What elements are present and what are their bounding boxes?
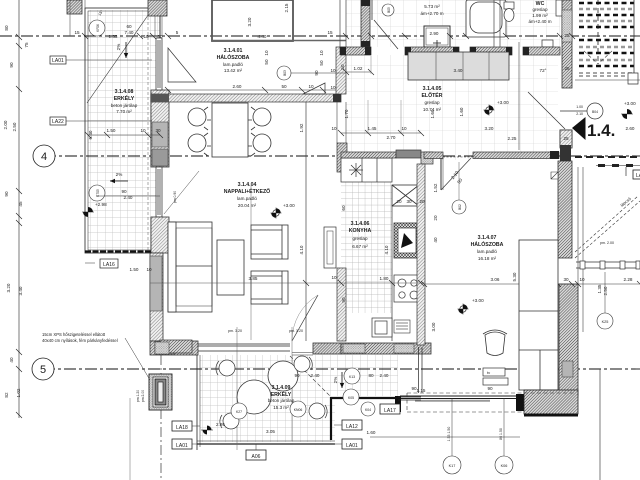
svg-text:1.60: 1.60 [459, 107, 464, 116]
svg-text:7.70 m²: 7.70 m² [116, 109, 132, 114]
fridge snowflake [349, 163, 363, 177]
svg-text:30: 30 [563, 277, 569, 282]
svg-text:B03: B03 [283, 70, 287, 76]
witness lines balcony2 [236, 327, 238, 450]
wall eloter/konyha y152 [341, 152, 396, 158]
marker circles bottom [443, 456, 461, 474]
left dimension chain line [16, 0, 22, 418]
svg-text:7.40: 7.40 [125, 30, 134, 35]
kitchen top cabinets [341, 158, 392, 182]
svg-text:1.70: 1.70 [344, 109, 349, 118]
svg-text:2.60: 2.60 [233, 84, 242, 89]
svg-text:50: 50 [264, 59, 269, 65]
svg-text:2%: 2% [116, 172, 123, 177]
bedroom2 south railing lines [400, 396, 516, 399]
boxed label LA01 bottom-mid [334, 439, 362, 449]
svg-text:40x40 cm nyílások, fém párkány: 40x40 cm nyílások, fém párkányfedéssel [42, 338, 118, 343]
south wall nappali [150, 341, 198, 355]
svg-text:15cm XPS hőszigeteléssel ellát: 15cm XPS hőszigeteléssel ellátott [42, 332, 106, 337]
svg-text:2.60: 2.60 [626, 126, 635, 131]
svg-text:lam.padló: lam.padló [223, 62, 243, 67]
svg-text:80 1.50: 80 1.50 [499, 428, 503, 440]
wall bedroom1 east / eloter [336, 47, 346, 94]
svg-text:lam.padló: lam.padló [477, 249, 497, 254]
balcony2 south window lines [398, 397, 421, 400]
svg-text:4.10: 4.10 [299, 245, 304, 254]
svg-text:60: 60 [126, 24, 132, 29]
room label NAPPALI 3.1.4.04 [224, 182, 270, 208]
svg-text:LA01: LA01 [346, 443, 358, 449]
window marker circle K lower [89, 185, 105, 201]
bath labels [420, 4, 443, 16]
svg-text:50: 50 [281, 84, 287, 89]
svg-text:10: 10 [146, 267, 152, 272]
svg-text:2.95: 2.95 [216, 422, 225, 427]
svg-text:10: 10 [319, 50, 324, 56]
svg-text:LA12: LA12 [346, 424, 358, 430]
pier column left [149, 374, 172, 410]
boxed label LA01 bottom-left [172, 439, 200, 449]
svg-text:1.4.: 1.4. [587, 121, 615, 140]
svg-text:B04: B04 [592, 110, 598, 114]
svg-text:LA17: LA17 [384, 408, 396, 414]
svg-text:1.53 1.50: 1.53 1.50 [447, 427, 451, 442]
west wall gray block lower [150, 256, 162, 311]
WC door leaf [556, 0, 563, 16]
svg-text:1.35: 1.35 [597, 284, 602, 293]
marker circles balcony2 [231, 403, 247, 419]
west wall below window2 [151, 217, 169, 253]
left dimension labels [3, 25, 29, 398]
svg-text:3.1.4.07: 3.1.4.07 [478, 235, 497, 241]
svg-text:3.20: 3.20 [485, 126, 494, 131]
svg-text:3.1.4.08: 3.1.4.08 [115, 89, 134, 95]
svg-text:ám+2.40 m: ám+2.40 m [528, 19, 551, 24]
svg-text:A06: A06 [252, 454, 261, 460]
outside corridor edge with blocks [596, 165, 640, 167]
top right ticks [343, 33, 575, 39]
kitchen counter east column [391, 206, 393, 341]
witness line left of pier [129, 398, 131, 480]
kitchen west opening jambs [337, 102, 346, 143]
bedroom2 tv table [483, 368, 505, 376]
eloter closet [408, 52, 509, 80]
svg-text:+3.00: +3.00 [624, 101, 636, 106]
floor tile grid ELOTER [346, 55, 558, 152]
svg-text:80: 80 [368, 373, 374, 378]
svg-text:10: 10 [331, 275, 337, 280]
svg-text:1.50: 1.50 [130, 267, 139, 272]
svg-text:5.73 m²: 5.73 m² [424, 4, 440, 9]
marker circle B03 [277, 66, 291, 80]
mid dimension line across [150, 282, 424, 284]
svg-text:10: 10 [330, 85, 336, 90]
svg-text:6.40: 6.40 [88, 130, 93, 139]
svg-text:20: 20 [396, 199, 402, 204]
svg-text:1.00: 1.00 [576, 105, 583, 109]
washing machine [424, 26, 450, 47]
svg-text:K04: K04 [365, 408, 371, 412]
svg-text:ERKÉLY: ERKÉLY [114, 94, 135, 102]
west wall of NAPPALI below balcony [150, 253, 163, 341]
bedroom2 west window to balcony [419, 347, 423, 393]
flue block crosshatch [394, 223, 421, 258]
room label ERKELY 3.1.4.08 [111, 89, 138, 114]
stove [394, 275, 421, 302]
svg-text:30: 30 [406, 199, 412, 204]
WC separator wall [494, 0, 500, 47]
svg-text:1.35: 1.35 [109, 34, 118, 39]
column at corridor [421, 152, 433, 164]
svg-text:4.10: 4.10 [384, 245, 389, 254]
east wall dotted top block [562, 10, 572, 42]
svg-text:10: 10 [331, 126, 337, 131]
svg-text:K27: K27 [236, 410, 242, 414]
svg-text:+2.98: +2.98 [95, 202, 107, 207]
svg-text:K06: K06 [501, 464, 508, 468]
bedroom2 west wall [417, 164, 425, 345]
section line 5 y369 [43, 368, 640, 370]
neighbour balcony rectangle above [212, 0, 293, 41]
svg-text:3.20: 3.20 [247, 17, 252, 26]
boxed label right edge cut [633, 170, 640, 179]
coffee table [217, 240, 244, 295]
eloter dims [331, 66, 634, 141]
+2.95 marker balcony2 [203, 426, 212, 435]
bath door swing [374, 20, 398, 49]
svg-text:1.60: 1.60 [430, 109, 435, 118]
svg-text:+3.00: +3.00 [472, 298, 484, 303]
svg-text:beton járólap: beton járólap [111, 103, 138, 108]
south gray ledge [415, 400, 490, 402]
svg-text:B02: B02 [458, 204, 462, 210]
svg-text:40: 40 [9, 357, 14, 363]
svg-text:15: 15 [74, 30, 80, 35]
dining table [212, 103, 248, 157]
balcony1 outer edge [85, 8, 160, 253]
svg-text:3.00: 3.00 [431, 322, 436, 331]
top-left hatched wall block A [67, 0, 82, 14]
svg-text:NAPPALI+ÉTKEZŐ: NAPPALI+ÉTKEZŐ [224, 187, 270, 195]
window marker circle KF06 top [89, 20, 105, 36]
svg-text:B05: B05 [387, 7, 391, 13]
svg-text:10: 10 [579, 277, 585, 282]
svg-text:1.45: 1.45 [368, 126, 377, 131]
svg-text:3.1.4.05: 3.1.4.05 [423, 86, 442, 92]
bedroom2 plant pot [483, 330, 507, 356]
balcony2 SE black cap [395, 396, 401, 412]
railing right side [576, 261, 640, 269]
section circle 4 [33, 145, 55, 167]
svg-text:ám+2.70 m: ám+2.70 m [420, 11, 443, 16]
stair right boundary [633, 0, 635, 77]
svg-text:2.15: 2.15 [284, 3, 289, 12]
svg-text:1.52: 1.52 [433, 183, 438, 192]
svg-text:tv: tv [487, 370, 490, 375]
bedroom1 window triangle [168, 48, 196, 82]
svg-text:1.99 m²: 1.99 m² [532, 13, 548, 18]
svg-text:KF06: KF06 [96, 24, 100, 32]
room label ERKELY 3.1.4.09 [268, 385, 295, 410]
toilet [504, 2, 514, 22]
balcony door swing [292, 295, 318, 341]
bottom area dims [228, 329, 426, 435]
svg-text:60: 60 [341, 205, 346, 211]
svg-text:40: 40 [433, 237, 438, 243]
svg-text:1.50: 1.50 [107, 128, 116, 133]
2% slope arrow top [116, 42, 128, 58]
marker circle B05 [382, 4, 394, 16]
boxed label LA18 [172, 421, 200, 431]
bedroom2 north wall west piece [424, 152, 443, 159]
kitchen west wall lower [337, 268, 346, 341]
balcony1 bottom edge dark [85, 250, 160, 252]
dim row right y284 [424, 283, 640, 285]
svg-text:25: 25 [564, 66, 570, 71]
vertical lines above section [70, 0, 162, 36]
svg-text:2.50: 2.50 [603, 286, 608, 295]
svg-text:3.85: 3.85 [249, 276, 258, 281]
svg-text:1.60: 1.60 [367, 430, 376, 435]
bedroom2 door leaf and swing [440, 158, 442, 190]
bedroom1 side dims [264, 50, 324, 76]
kitchen door leaf open [324, 227, 336, 268]
svg-text:82: 82 [4, 392, 9, 398]
svg-text:2.00: 2.00 [3, 120, 8, 129]
entry zone boundary line [518, 42, 520, 150]
WC lintel rect [542, 40, 553, 47]
2% slope arrow lower [110, 172, 128, 183]
SE corner pier hatched [524, 390, 578, 414]
floor tile grid KONYHA [341, 179, 392, 313]
wall corner block SW [160, 340, 192, 353]
svg-text:10: 10 [308, 84, 314, 89]
svg-text:90: 90 [121, 189, 127, 194]
svg-text:greslap: greslap [532, 7, 548, 12]
boxed label LA22 [50, 117, 152, 125]
svg-text:KONYHA: KONYHA [349, 228, 372, 234]
boxed label A06 [246, 444, 266, 460]
corridor dims [433, 170, 464, 243]
bedroom2 wardrobe [519, 240, 558, 390]
staircase dashed treads [579, 3, 634, 66]
dining chairs left [188, 107, 211, 156]
dashed terrace outline [407, 393, 575, 412]
balcony window south [198, 344, 290, 351]
balcony2 east wall L [330, 397, 332, 440]
window plane dashed line balcony1 [147, 12, 149, 250]
svg-text:2.28: 2.28 [624, 277, 633, 282]
svg-text:LA22: LA22 [52, 119, 64, 125]
window LA01 upper in west wall [156, 38, 162, 90]
room label KONYHA [349, 221, 372, 249]
window LA22 lower in west wall [156, 167, 162, 217]
svg-text:3.40: 3.40 [454, 68, 463, 73]
WC labels [528, 1, 551, 24]
armchair witness line [250, 186, 252, 225]
entry door swing [528, 92, 565, 129]
svg-text:2.50: 2.50 [12, 122, 17, 131]
round table 2 [268, 361, 298, 391]
east wall hatched [562, 0, 572, 88]
svg-text:+3.00: +3.00 [283, 203, 295, 208]
svg-text:3.1.4.04: 3.1.4.04 [238, 182, 257, 188]
lepcso dashed diagonal [575, 196, 640, 258]
misc leader lines [335, 72, 346, 74]
balcony door threshold lines [292, 353, 313, 356]
svg-text:2.40: 2.40 [311, 373, 320, 378]
section line top y36 [0, 35, 640, 37]
balcony1 slope diagonal [87, 8, 153, 103]
wall bath/eloter y47 [340, 47, 560, 55]
svg-text:90: 90 [341, 297, 346, 303]
west wall upper hatched segment [151, 90, 169, 167]
svg-text:5.30: 5.30 [512, 272, 517, 281]
stair flight centerline dashed [597, 0, 599, 64]
armchair 2 [251, 271, 288, 304]
svg-text:2.70: 2.70 [387, 135, 396, 140]
svg-text:lam.padló: lam.padló [237, 196, 257, 201]
boxed label LA16 [85, 259, 118, 268]
svg-text:pm 0.90: pm 0.90 [173, 191, 177, 203]
section circle 5 [32, 358, 54, 380]
svg-text:3.06: 3.06 [491, 277, 500, 282]
balcony1 dims [107, 24, 161, 272]
marker circles south row [344, 368, 360, 384]
svg-text:50: 50 [340, 64, 345, 70]
svg-text:80: 80 [4, 25, 9, 31]
wall bedroom1 / dining y94 [151, 94, 341, 102]
svg-text:90: 90 [9, 62, 14, 68]
svg-text:+3.00: +3.00 [497, 100, 509, 105]
svg-text:LA01: LA01 [52, 58, 64, 64]
svg-text:LA: LA [636, 173, 640, 179]
leader to west window [164, 171, 199, 214]
south wall kitchen segment [341, 343, 431, 354]
svg-text:72°: 72° [540, 68, 547, 73]
svg-text:3.1.4.09: 3.1.4.09 [272, 385, 291, 391]
sink [372, 318, 392, 337]
room label ELOTER [421, 86, 442, 112]
svg-text:13.42 m²: 13.42 m² [224, 68, 243, 73]
svg-text:5: 5 [40, 364, 46, 376]
svg-text:30: 30 [157, 34, 163, 39]
svg-text:KT05: KT05 [96, 189, 100, 197]
svg-text:1.80: 1.80 [380, 276, 389, 281]
svg-text:6.67 m²: 6.67 m² [352, 244, 368, 249]
south wall black cap [516, 394, 524, 411]
boxed label LA12 [334, 420, 362, 430]
svg-text:pm. 2.00: pm. 2.00 [600, 241, 614, 245]
svg-text:pm 1.20: pm 1.20 [136, 390, 140, 402]
svg-text:15: 15 [327, 30, 333, 35]
section line 4 y156 [44, 155, 640, 157]
svg-text:25: 25 [564, 33, 570, 38]
svg-text:3.1.4.06: 3.1.4.06 [351, 221, 370, 227]
svg-text:2%: 2% [333, 377, 338, 384]
svg-text:3.1.4.01: 3.1.4.01 [224, 48, 243, 54]
sofa [168, 222, 212, 312]
svg-text:2.40: 2.40 [380, 373, 389, 378]
stair bottom gray dashed rows [579, 73, 634, 76]
svg-text:90: 90 [4, 191, 9, 197]
west wall darker junction block [152, 149, 168, 166]
svg-text:greslap: greslap [352, 236, 368, 241]
svg-text:5: 5 [176, 30, 179, 35]
svg-text:LA01: LA01 [176, 443, 188, 449]
svg-text:10: 10 [330, 68, 336, 73]
balcony2 bottom edge [197, 441, 335, 444]
svg-text:20.04 m²: 20.04 m² [238, 203, 257, 208]
marker circle B02 [452, 200, 466, 214]
svg-text:90: 90 [487, 386, 493, 391]
stair bottom step notch [628, 73, 638, 84]
svg-text:4: 4 [41, 151, 47, 163]
svg-text:2.90: 2.90 [430, 31, 439, 36]
svg-text:HÁLÓSZOBA: HÁLÓSZOBA [217, 53, 250, 61]
svg-text:1.02: 1.02 [16, 388, 21, 397]
svg-text:10: 10 [401, 126, 407, 131]
bathtub [466, 0, 506, 37]
boxed label LA17 [380, 404, 400, 414]
svg-text:2%: 2% [116, 44, 121, 51]
svg-text:25: 25 [563, 136, 569, 141]
svg-text:50: 50 [319, 60, 324, 66]
room label HALOSZOBA 3.1.4.07 [471, 235, 504, 261]
eloter witness lines [368, 56, 401, 134]
svg-text:1.15: 1.15 [417, 388, 426, 393]
window opening flag on east wall [551, 172, 558, 179]
svg-text:pm. 3.20: pm. 3.20 [228, 329, 242, 333]
svg-text:15.3 m²: 15.3 m² [273, 405, 289, 410]
svg-text:LA18: LA18 [176, 425, 188, 431]
outside corridor dashes [575, 156, 640, 158]
svg-text:K17: K17 [449, 464, 456, 468]
dim row bedroom1 bottom [233, 84, 314, 89]
marker circle B04 [587, 103, 603, 119]
svg-text:K13: K13 [349, 375, 355, 379]
svg-text:greslap: greslap [424, 100, 440, 105]
nappali east boundary line [305, 102, 307, 341]
svg-text:1.02: 1.02 [354, 66, 363, 71]
bedroom2 north wall east piece [473, 152, 559, 159]
svg-text:LA16: LA16 [103, 262, 115, 268]
room label HALOSZOBA 3.1.4.01 [217, 48, 250, 73]
bedroom1 door triangle at east [303, 83, 325, 94]
svg-text:ELŐTÉR: ELŐTÉR [421, 91, 442, 99]
svg-text:K25: K25 [602, 320, 609, 324]
svg-text:45: 45 [18, 201, 23, 207]
eloter 1.02 dim line [346, 71, 371, 73]
svg-text:10: 10 [264, 50, 269, 56]
svg-text:ERKÉLY: ERKÉLY [271, 390, 292, 398]
armchair 1 [251, 225, 288, 259]
svg-text:20: 20 [433, 215, 438, 221]
balcony2 left edge [197, 355, 200, 450]
dining chairs right [248, 107, 271, 156]
bathroom west wall [340, 0, 346, 47]
top dim labels [74, 30, 333, 39]
svg-text:3.20: 3.20 [6, 283, 11, 292]
svg-text:pm 2.00: pm 2.00 [141, 390, 145, 402]
svg-text:90: 90 [294, 373, 300, 378]
svg-text:2.25: 2.25 [508, 136, 517, 141]
dashed roof diagonal balcony2 [290, 356, 331, 397]
ventilation shaft X [392, 185, 419, 206]
top-left hatched wall block B [148, 0, 167, 16]
south wall piece right of door [313, 343, 341, 354]
west wall gray pillar block [152, 122, 168, 147]
